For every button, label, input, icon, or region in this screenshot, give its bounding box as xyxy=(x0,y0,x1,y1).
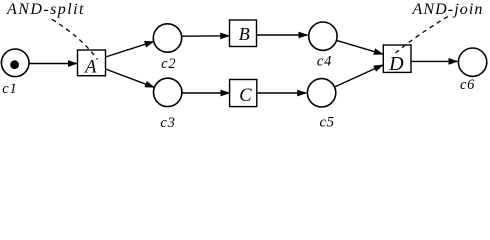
svg-text:c6: c6 xyxy=(460,77,475,93)
svg-text:C: C xyxy=(239,86,252,106)
svg-text:D: D xyxy=(388,53,404,75)
svg-text:A: A xyxy=(83,57,97,77)
svg-text:AND-split: AND-split xyxy=(6,1,85,18)
svg-text:AND-join: AND-join xyxy=(412,1,484,18)
svg-text:c5: c5 xyxy=(320,115,335,131)
svg-text:c3: c3 xyxy=(160,115,175,131)
svg-text:c1: c1 xyxy=(2,81,17,97)
svg-text:B: B xyxy=(239,24,250,44)
svg-text:c4: c4 xyxy=(317,54,332,70)
svg-text:c2: c2 xyxy=(161,56,176,72)
